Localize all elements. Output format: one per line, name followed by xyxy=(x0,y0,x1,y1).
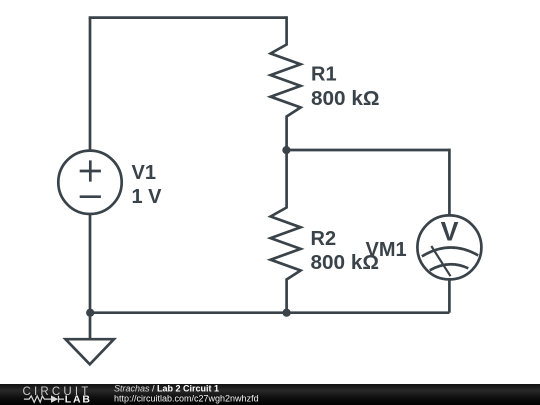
resistor R2 xyxy=(271,150,301,313)
svg-text:1 V: 1 V xyxy=(132,186,163,208)
svg-text:R1: R1 xyxy=(311,64,337,86)
wire left vertical (top wire to V1 top) xyxy=(89,18,92,151)
svg-text:Strachas / Lab 2 Circuit 1: Strachas / Lab 2 Circuit 1 xyxy=(114,384,219,394)
svg-text:http://circuitlab.com/c27wgh2n: http://circuitlab.com/c27wgh2nwhzfd xyxy=(114,393,259,403)
node A (R1/R2/VM top junction) xyxy=(282,146,290,154)
wire ground stem xyxy=(89,313,92,340)
wire middle horizontal xyxy=(286,149,449,152)
svg-text:LAB: LAB xyxy=(65,394,92,405)
voltage source V1 xyxy=(58,151,121,214)
node B (R2 bottom junction) xyxy=(283,309,291,317)
wire voltmeter top lead xyxy=(448,149,451,216)
svg-text:V1: V1 xyxy=(132,162,156,184)
voltmeter VM1 xyxy=(417,215,481,279)
wire bottom horizontal xyxy=(90,311,449,314)
svg-text:R2: R2 xyxy=(311,228,337,250)
resistor R1 xyxy=(271,16,301,150)
wire V1 bottom lead xyxy=(89,213,92,313)
ground xyxy=(66,339,114,364)
wire top horizontal xyxy=(89,16,287,19)
node C (ground junction) xyxy=(86,309,94,317)
svg-text:VM1: VM1 xyxy=(366,239,407,261)
wire voltmeter bottom lead xyxy=(448,279,451,313)
footer bar xyxy=(0,384,540,405)
CircuitLab logo: resistor+diode icon xyxy=(24,396,64,403)
svg-text:V: V xyxy=(441,216,459,246)
svg-text:800 kΩ: 800 kΩ xyxy=(311,88,380,110)
